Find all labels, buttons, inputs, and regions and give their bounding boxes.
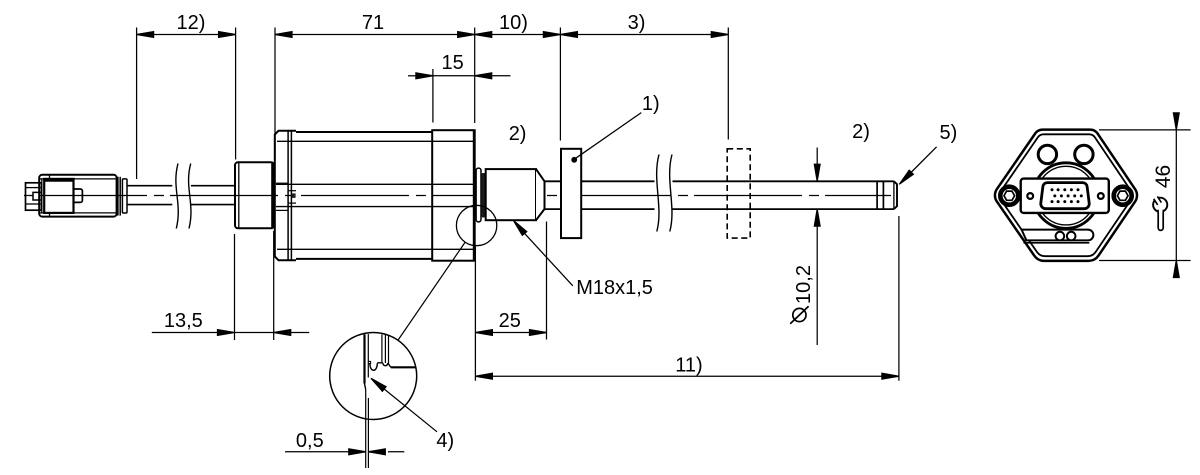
dimension 12): [137, 12, 236, 179]
D-sub shell: [1041, 183, 1089, 209]
width across flats wrench symbol: [1153, 195, 1168, 230]
connector X1 coding tab: [74, 189, 83, 202]
cable gland cap: [235, 162, 275, 228]
dimension 10): [475, 12, 561, 141]
plate screw hole right: [1098, 193, 1104, 199]
dimension 11): [475, 216, 899, 381]
svg-text:25: 25: [499, 310, 521, 332]
rod end grooves: [877, 181, 894, 209]
centerline: [24, 195, 891, 197]
detail circle 4): [330, 333, 417, 420]
connector X1 latch hook: [33, 192, 42, 200]
label 5) leader: [897, 122, 957, 186]
thread M18 body: [486, 169, 536, 220]
guide hole right: [1075, 145, 1093, 163]
connector X1 inner block: [44, 179, 73, 213]
connector plate: [1021, 179, 1109, 213]
cable: [127, 186, 235, 205]
magnet 1) flange: [561, 149, 581, 238]
svg-text:4): 4): [436, 430, 454, 452]
dimension 13,5: [152, 231, 309, 340]
label 4) leader: [369, 376, 454, 452]
svg-text:2): 2): [852, 121, 870, 143]
svg-text:5): 5): [940, 122, 958, 144]
svg-text:0,5: 0,5: [296, 430, 324, 452]
rod: [545, 181, 894, 209]
dimension 3): [560, 12, 728, 140]
D-sub pins row 1: [1051, 188, 1080, 191]
label M18x1,5 leader: [511, 219, 653, 299]
svg-text:3): 3): [628, 12, 646, 34]
flange face view: inner hexagon line: [1000, 134, 1132, 256]
bottom slot: [1022, 230, 1094, 241]
svg-text:10): 10): [499, 12, 528, 34]
connector boss inner circle: [1037, 166, 1096, 225]
housing end cap: [432, 130, 475, 261]
svg-text:13,5: 13,5: [164, 310, 203, 332]
detail 4) gap lines / 0,5 extension lines: [366, 390, 369, 469]
rod end tip: [894, 181, 897, 209]
seal ring: [476, 168, 485, 222]
D-sub pins row 3: [1051, 200, 1080, 203]
cable entry neck: [276, 183, 296, 210]
detail leader line: [398, 242, 465, 340]
svg-text:2): 2): [509, 123, 527, 145]
svg-text:M18x1,5: M18x1,5: [576, 277, 653, 299]
dimension diameter 10,2: [790, 148, 820, 346]
dimension 71: [275, 12, 475, 159]
D-sub pins row 2: [1053, 194, 1083, 197]
connector boss outer circle: [1033, 163, 1099, 229]
thread cone: [536, 169, 545, 220]
svg-text:15: 15: [441, 52, 463, 74]
plate screw hole left: [1027, 193, 1033, 199]
connector X1 tip: [26, 183, 42, 210]
flange face view: outer hexagon: [995, 130, 1137, 261]
svg-text:46: 46: [1152, 165, 1175, 188]
slot holes: [1056, 232, 1065, 241]
guide hole left: [1038, 145, 1056, 163]
clamp screw right: [1114, 187, 1132, 205]
dimension 0,5: [285, 430, 404, 454]
detail 4) housing face edge: [365, 334, 369, 390]
label 1) leader: [571, 93, 659, 163]
svg-text:1): 1): [642, 93, 660, 115]
svg-text:71: 71: [362, 12, 384, 34]
rod break symbol: [657, 155, 672, 232]
housing tube: [276, 132, 486, 259]
flange chord line: [1024, 242, 1090, 244]
housing left collar: [275, 131, 296, 260]
svg-text:11): 11): [675, 354, 702, 376]
cable break symbol: [176, 164, 191, 229]
svg-text:12): 12): [177, 12, 206, 34]
connector X1 body: [39, 175, 116, 217]
connector X1 strain relief rings: [118, 177, 127, 216]
svg-text:10,2: 10,2: [793, 265, 815, 304]
clamp screw left: [1000, 187, 1018, 205]
detail reference circle: [456, 205, 496, 245]
magnet 2) dashed: [727, 149, 750, 238]
dimension 15: [408, 52, 511, 123]
detail 4) seal lip profile: [368, 334, 415, 370]
dimension 25: [475, 222, 546, 381]
dimension 46: [1099, 113, 1191, 278]
